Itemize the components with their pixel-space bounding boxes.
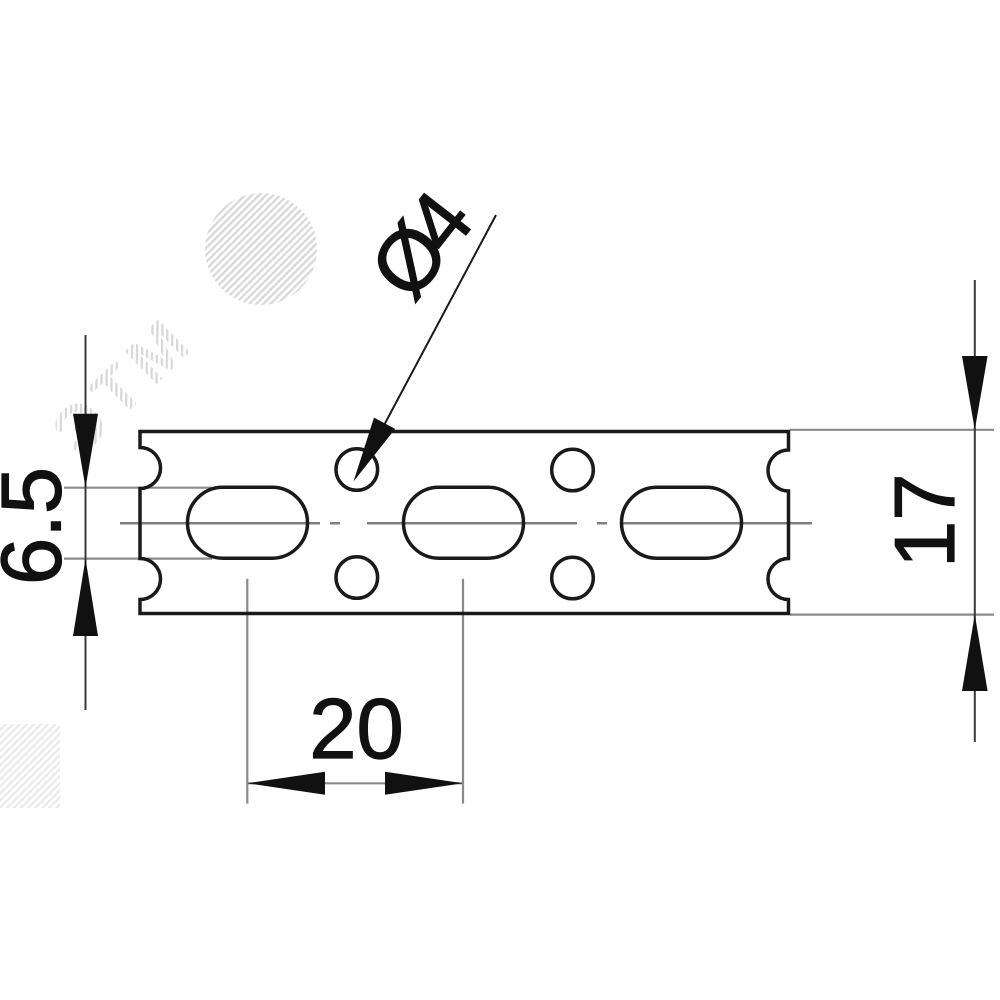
svg-text:ЭТМ: ЭТМ <box>37 300 208 469</box>
svg-text:17: 17 <box>878 473 973 568</box>
svg-text:Ø4: Ø4 <box>352 176 490 316</box>
svg-text:20: 20 <box>309 682 404 777</box>
svg-text:6.5: 6.5 <box>0 467 80 585</box>
